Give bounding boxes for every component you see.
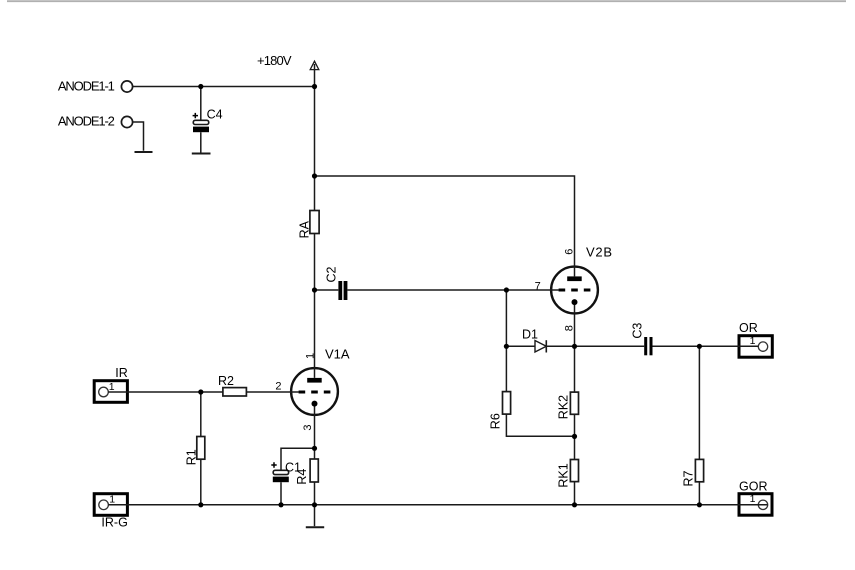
svg-text:7: 7 (535, 280, 541, 292)
svg-text:R1: R1 (184, 449, 198, 465)
svg-text:R7: R7 (682, 470, 696, 486)
svg-text:V1A: V1A (325, 347, 350, 362)
svg-text:2: 2 (275, 381, 281, 393)
svg-text:R6: R6 (489, 413, 503, 429)
svg-text:V2B: V2B (586, 244, 612, 259)
svg-text:R2: R2 (218, 374, 234, 388)
svg-text:C3: C3 (631, 323, 645, 339)
svg-text:1: 1 (109, 494, 115, 506)
svg-text:D1: D1 (522, 327, 538, 341)
svg-text:RK1: RK1 (556, 463, 570, 487)
svg-text:C2: C2 (325, 266, 339, 282)
svg-text:8: 8 (564, 325, 576, 331)
svg-text:RA: RA (297, 220, 311, 238)
svg-text:ANODE1-1: ANODE1-1 (58, 79, 115, 94)
svg-text:ANODE1-2: ANODE1-2 (58, 114, 115, 129)
svg-text:C4: C4 (207, 108, 223, 122)
svg-text:1: 1 (109, 381, 115, 393)
svg-text:IR-G: IR-G (101, 516, 127, 530)
svg-text:1: 1 (304, 353, 316, 359)
svg-text:1: 1 (750, 335, 756, 347)
svg-text:1: 1 (750, 493, 756, 505)
svg-text:GOR: GOR (739, 479, 767, 493)
svg-text:IR: IR (115, 366, 128, 380)
svg-text:6: 6 (564, 249, 576, 255)
svg-text:OR: OR (739, 321, 758, 335)
svg-text:R4: R4 (295, 469, 309, 485)
svg-text:RK2: RK2 (556, 395, 570, 419)
svg-text:3: 3 (302, 424, 314, 430)
svg-text:+180V: +180V (257, 53, 292, 68)
